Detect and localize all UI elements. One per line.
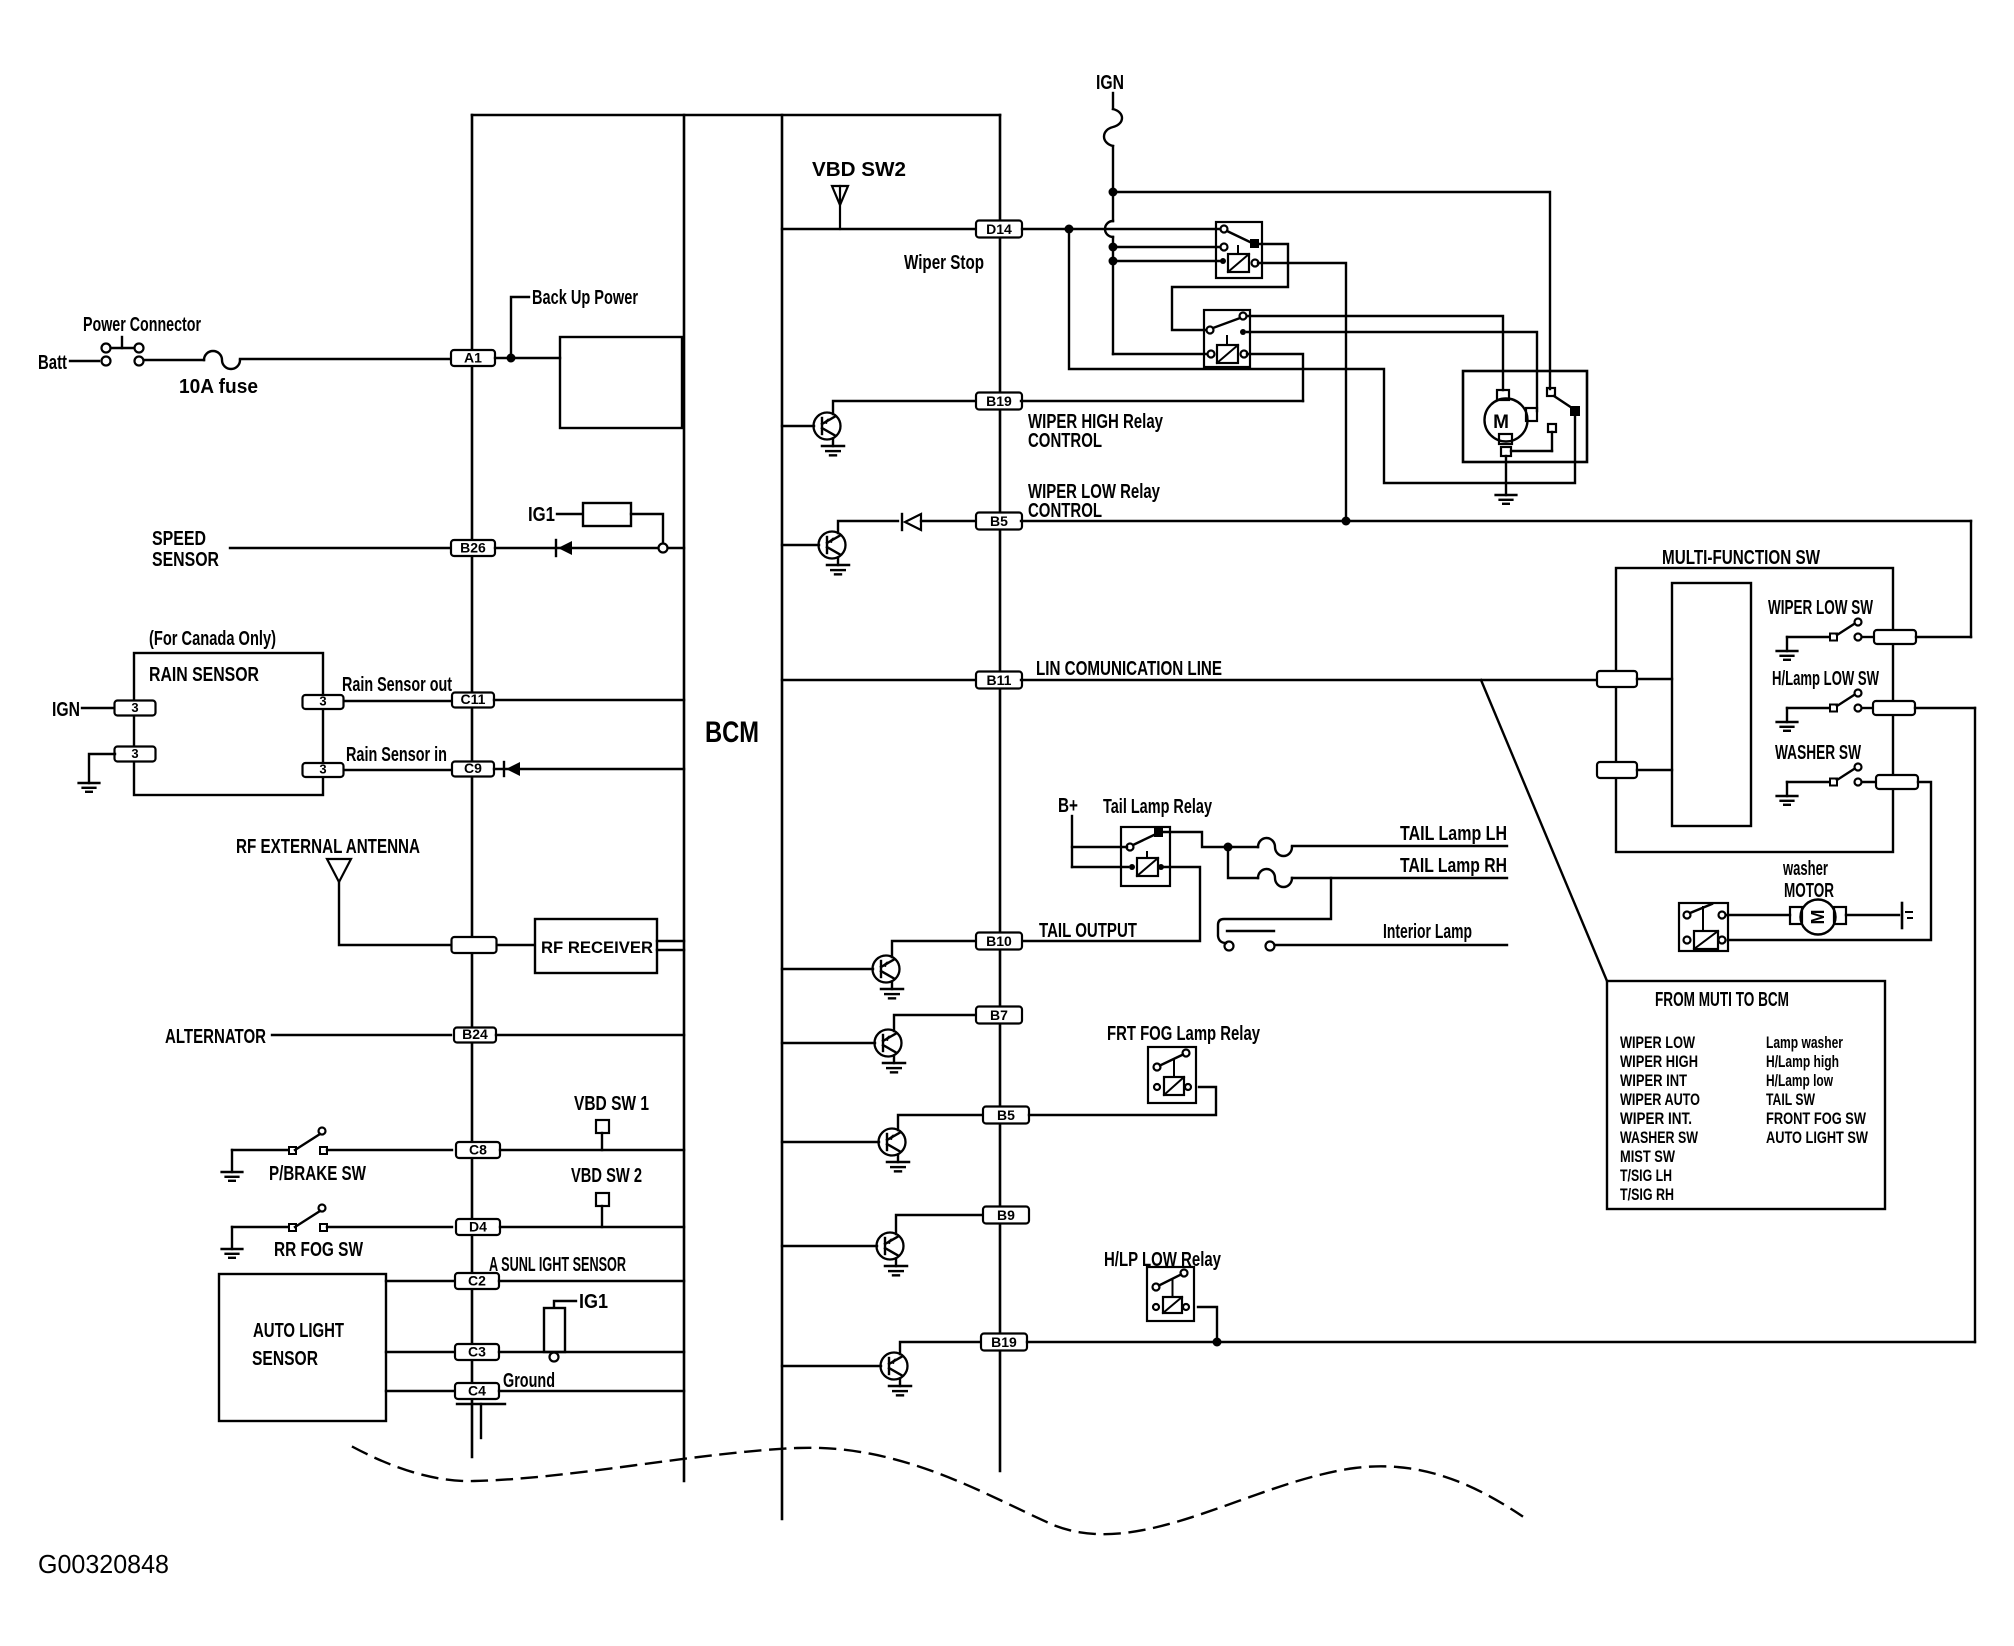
BCM top edge [472, 114, 1000, 117]
wire: BCM to D14 [782, 228, 977, 230]
svg-text:C4: C4 [468, 1383, 486, 1399]
wire: relay output [1162, 832, 1224, 847]
svg-text:IG1: IG1 [579, 1291, 608, 1313]
H/LP low relay K3 [1147, 1267, 1194, 1321]
connector (WIPER LOW SW) [1874, 630, 1916, 644]
wire: IGN lead [1112, 93, 1114, 109]
svg-text:CONTROL: CONTROL [1028, 430, 1102, 452]
svg-text:C9: C9 [464, 760, 482, 776]
wire: B26 to BCM rail [495, 547, 684, 549]
wire: A1 to back-up power module [495, 357, 560, 359]
node: relay1 coil junction [1342, 517, 1351, 526]
wiper motor M1 [1485, 390, 1538, 444]
connector A1 [451, 350, 495, 366]
connector C11 [452, 693, 494, 708]
svg-text:Ground: Ground [503, 1370, 555, 1392]
ground (rain sensor) [79, 782, 100, 784]
wire: power connector to fuse [144, 359, 204, 361]
connector (WASHER SW) [1876, 775, 1918, 789]
wire: transistor collector to connector [838, 521, 898, 533]
wire: washer sw to washer pump switch [1728, 782, 1931, 940]
transistor (output driver) [877, 1233, 904, 1260]
svg-text:IG1: IG1 [528, 504, 555, 526]
fuse F1 10A [204, 351, 240, 369]
ground at transistor emitter [881, 982, 903, 999]
svg-text:T/SIG RH: T/SIG RH [1620, 1185, 1674, 1204]
wire: C9 to rail [494, 768, 684, 770]
wire: BCM to B11 [782, 679, 977, 681]
RR FOG switch [232, 1205, 327, 1232]
wire: interior lamp feed [1218, 878, 1331, 943]
svg-text:C8: C8 [469, 1142, 487, 1158]
wire: B24 to rail [496, 1034, 684, 1036]
svg-text:WIPER INT.: WIPER INT. [1620, 1109, 1692, 1128]
wiper motor lower terminal [1501, 447, 1552, 456]
svg-text:WASHER SW: WASHER SW [1620, 1128, 1699, 1147]
transistor (output driver) [873, 956, 900, 983]
connector B11 [976, 672, 1022, 689]
ground at transistor emitter [883, 1056, 905, 1073]
wire: P/BRAKE SW to C8 [327, 1149, 452, 1151]
wire: fuse to connector A1 [240, 358, 451, 360]
WIPER HIGH Relay CONTROL label [1028, 411, 1164, 452]
svg-text:SPEED: SPEED [152, 528, 206, 550]
svg-text:3: 3 [131, 746, 138, 761]
svg-text:A SUNL IGHT SENSOR: A SUNL IGHT SENSOR [489, 1254, 626, 1276]
wire: D4 to rail [500, 1226, 684, 1228]
svg-text:B5: B5 [997, 1107, 1015, 1123]
diode D3 on wiper low control [902, 514, 977, 530]
tail lamp relay K1 [1121, 827, 1170, 886]
RF RECEIVER box [535, 919, 657, 973]
wire: transistor base from BCM rail [782, 1042, 875, 1044]
wire: alternator to B24 [272, 1034, 451, 1036]
multi-function inner module box [1672, 583, 1751, 826]
svg-text:TAIL SW: TAIL SW [1766, 1090, 1816, 1109]
node: D14 junction [1065, 225, 1074, 234]
AUTO LIGHT SENSOR box [219, 1274, 386, 1421]
svg-text:B5: B5 [990, 513, 1008, 529]
ground at transistor emitter [885, 1259, 907, 1276]
ground at transistor emitter [889, 1379, 911, 1396]
wire: rain sensor out to C11 [344, 700, 451, 702]
wire: transistor collector to connector [898, 1115, 984, 1130]
wire: sensor to C4 [386, 1390, 453, 1392]
svg-text:WIPER LOW SW: WIPER LOW SW [1768, 597, 1873, 619]
wire: transistor base from BCM rail [782, 968, 873, 970]
svg-text:3: 3 [319, 694, 326, 709]
svg-text:SENSOR: SENSOR [252, 1348, 318, 1370]
front fog lamp relay K2 [1148, 1047, 1196, 1103]
svg-text:RF RECEIVER: RF RECEIVER [541, 938, 653, 957]
connector break on IGN lead [1104, 109, 1122, 146]
transistor (output driver) [875, 1030, 902, 1057]
ground at transistor emitter [887, 1155, 909, 1172]
svg-text:3: 3 [319, 762, 326, 777]
diode D2 on rain sensor in line [504, 762, 520, 776]
wiper motor box [1463, 371, 1587, 462]
svg-text:VBD SW2: VBD SW2 [812, 159, 906, 181]
svg-text:Lamp washer: Lamp washer [1766, 1033, 1843, 1052]
wire: IGN to relay1 normally-open contact [1113, 246, 1220, 248]
svg-text:TAIL Lamp LH: TAIL Lamp LH [1400, 823, 1507, 845]
RF connector (unlabeled) [452, 937, 497, 953]
wire: wiper stop run to motor switch [1069, 229, 1575, 483]
svg-text:BCM: BCM [705, 716, 759, 749]
svg-text:Rain Sensor in: Rain Sensor in [346, 744, 447, 766]
wire: relay2 contact to wiper motor low brush [1247, 332, 1537, 411]
wire: antenna to RF connector [339, 882, 452, 945]
node: IGN to motor switch [1109, 188, 1118, 197]
svg-text:CONTROL: CONTROL [1028, 500, 1102, 522]
wire: C4 to rail [499, 1390, 684, 1392]
connector D14 [976, 221, 1022, 238]
resistor R1 (IG1 pull-up) [583, 503, 631, 526]
svg-text:C11: C11 [461, 691, 486, 707]
svg-text:IGN: IGN [52, 699, 80, 721]
svg-text:FROM MUTI TO BCM: FROM MUTI TO BCM [1655, 989, 1789, 1011]
wire: IGN vertical feed [1105, 146, 1113, 354]
wire: relay2 coil to B19 line [1247, 354, 1303, 401]
wiper relay 1 (WIPER HIGH) [1216, 222, 1262, 278]
ground at transistor emitter [822, 439, 844, 456]
svg-text:WIPER HIGH: WIPER HIGH [1620, 1052, 1698, 1071]
svg-text:LIN COMUNICATION LINE: LIN COMUNICATION LINE [1036, 658, 1222, 680]
connector B9 [983, 1207, 1029, 1224]
wire: control line to WIPER LOW SW [1970, 521, 1972, 637]
wire + fuse: TAIL Lamp RH [1228, 847, 1507, 887]
wire: motor terminal to ground [1505, 456, 1507, 495]
svg-text:(For Canada Only): (For Canada Only) [149, 628, 276, 650]
ground at transistor emitter [827, 558, 849, 575]
svg-text:B11: B11 [987, 672, 1012, 688]
wire: transistor base from BCM rail [782, 1245, 877, 1247]
P/BRAKE switch [232, 1128, 327, 1155]
ground (H/Lamp LOW SW) [1777, 708, 1798, 731]
svg-text:SENSOR: SENSOR [152, 549, 219, 571]
svg-text:washer: washer [1782, 858, 1828, 880]
ground (RR FOG SW) [222, 1227, 243, 1258]
switch WASHER SW [1787, 764, 1876, 786]
svg-text:B10: B10 [986, 933, 1012, 949]
svg-text:AUTO LIGHT: AUTO LIGHT [253, 1320, 344, 1342]
wire: transistor collector to connector [894, 1015, 977, 1031]
wire: B19 line up to H/Lamp LOW SW [1974, 708, 1976, 1342]
wire: RR FOG SW to D4 [327, 1226, 452, 1228]
svg-text:3: 3 [131, 700, 138, 715]
terminal circle on B26 line [659, 544, 668, 553]
connector (LIN, multi-function) [1597, 671, 1637, 687]
wiper relay 2 (WIPER LOW) [1204, 310, 1250, 367]
connector B5 (front fog) [983, 1107, 1029, 1124]
svg-text:VBD SW 1: VBD SW 1 [574, 1093, 649, 1115]
wire: D14 to wiper relay 1 [1022, 228, 1220, 230]
wire: sensor to C3 [386, 1351, 453, 1353]
svg-text:Interior Lamp: Interior Lamp [1383, 921, 1472, 943]
svg-text:10A fuse: 10A fuse [179, 376, 258, 398]
connector B24 [454, 1028, 496, 1043]
rain sensor pin 3 (supply) [115, 701, 156, 716]
svg-text:B9: B9 [997, 1207, 1015, 1223]
connector B7 [976, 1007, 1022, 1024]
svg-text:FRT FOG Lamp Relay: FRT FOG Lamp Relay [1107, 1023, 1261, 1045]
wire: resistor to B26 line [631, 514, 663, 543]
svg-text:WIPER LOW: WIPER LOW [1620, 1033, 1696, 1052]
wire: h/lamp low sw to B19 line [1915, 707, 1975, 709]
connector D4 [456, 1219, 500, 1235]
connector (H/Lamp LOW SW) [1873, 701, 1915, 715]
BCM bottom cut (wavy dashed line) [353, 1447, 1522, 1534]
svg-text:D4: D4 [469, 1219, 487, 1235]
ground (WASHER SW) [1777, 782, 1798, 805]
wire: IGN to relay1 coil + [1113, 260, 1220, 262]
svg-text:B7: B7 [990, 1007, 1008, 1023]
svg-text:RAIN SENSOR: RAIN SENSOR [149, 664, 259, 686]
wire: connector to module [1637, 678, 1672, 680]
wire: transistor collector to connector [833, 401, 977, 414]
svg-text:Power Connector: Power Connector [83, 314, 201, 336]
washer MOTOR label [1782, 858, 1834, 902]
svg-text:Tail Lamp Relay: Tail Lamp Relay [1103, 796, 1213, 818]
svg-text:B19: B19 [986, 393, 1012, 409]
BCM left column rail (right) [683, 115, 686, 1481]
wire: transistor base from BCM rail [782, 1141, 879, 1143]
wire: Batt lead [70, 360, 99, 362]
wire: relay2 output to wiper motor + [1247, 316, 1503, 390]
wire: IGN to wiper motor park switch [1113, 192, 1550, 389]
svg-text:D14: D14 [986, 221, 1012, 237]
wire: pump switch to washer motor [1726, 914, 1790, 916]
wiper park switch [1547, 388, 1579, 451]
svg-text:TAIL Lamp RH: TAIL Lamp RH [1400, 855, 1507, 877]
diode D1 on speed sensor line [556, 540, 572, 556]
svg-text:C2: C2 [468, 1273, 486, 1289]
wire: B5 wiper-low control line [1021, 520, 1971, 522]
wire: transistor base from BCM rail [782, 425, 814, 427]
svg-text:Wiper Stop: Wiper Stop [904, 252, 984, 274]
wire: interior lamp line [1275, 944, 1507, 946]
svg-text:WIPER INT: WIPER INT [1620, 1071, 1687, 1090]
svg-text:H/Lamp high: H/Lamp high [1766, 1052, 1839, 1071]
svg-text:WASHER SW: WASHER SW [1775, 742, 1861, 764]
svg-text:P/BRAKE SW: P/BRAKE SW [269, 1163, 366, 1185]
svg-text:WIPER AUTO: WIPER AUTO [1620, 1090, 1700, 1109]
wire: C8 to rail [500, 1149, 684, 1151]
svg-text:B+: B+ [1058, 795, 1078, 817]
svg-text:A1: A1 [464, 350, 482, 366]
BCM right column rail (left) [781, 115, 784, 1519]
wire: washer motor to ground [1846, 914, 1899, 916]
ground (P/BRAKE SW) [222, 1150, 243, 1181]
washer motor M2 [1790, 900, 1846, 935]
wire: diagonal to FROM MUTI table [1481, 680, 1607, 981]
washer pump relay/switch box [1679, 903, 1728, 951]
svg-text:ALTERNATOR: ALTERNATOR [165, 1026, 266, 1048]
node: tail feed junction [1224, 843, 1233, 852]
wire: connector to module (2) [1637, 769, 1672, 771]
FROM MUTI TO BCM box [1607, 981, 1885, 1209]
wire: transistor collector to connector [900, 1342, 981, 1354]
WIPER LOW Relay CONTROL label [1028, 481, 1161, 522]
wire: transistor base from BCM rail [782, 544, 819, 546]
connector B10 [976, 933, 1022, 950]
antenna symbol [327, 859, 351, 882]
wire: rain sensor in to C9 [344, 769, 451, 771]
ground (wiper motor) [1496, 494, 1517, 496]
ground stub below C4 [457, 1404, 505, 1438]
transistor (output driver) [819, 532, 846, 559]
svg-text:AUTO LIGHT SW: AUTO LIGHT SW [1766, 1128, 1869, 1147]
node: back-up power junction [507, 354, 516, 363]
VBD SW 2 symbol [596, 1193, 609, 1227]
svg-text:Back Up Power: Back Up Power [532, 287, 638, 309]
BCM right column rail (right) [999, 115, 1002, 1471]
power connector P1 (4 terminals) [102, 337, 144, 366]
svg-text:T/SIG LH: T/SIG LH [1620, 1166, 1672, 1185]
wire: B19 line to multi-function switch [1027, 1341, 1975, 1343]
svg-text:RR FOG SW: RR FOG SW [274, 1239, 363, 1261]
svg-text:C3: C3 [468, 1344, 486, 1360]
connector (multi-function spare) [1597, 762, 1637, 778]
ground (WIPER LOW SW) [1777, 637, 1798, 660]
wire: back up power tap [511, 297, 529, 358]
connector C2 [455, 1273, 499, 1289]
transistor (output driver) [881, 1353, 908, 1380]
rain sensor pin 3 (out) [303, 695, 344, 709]
wire: relay1 coil to wiper-low control line [1258, 263, 1346, 516]
connector C8 [456, 1142, 500, 1158]
wire: transistor collector to connector [892, 941, 977, 957]
svg-text:B19: B19 [991, 1334, 1017, 1350]
wire: C2 to rail [499, 1280, 684, 1282]
wire: transistor base from BCM rail [782, 1365, 881, 1367]
wire: tail relay coil to B10 (TAIL OUTPUT) [1023, 867, 1200, 941]
wire: B19 to relay2 coil [1021, 400, 1303, 402]
svg-text:Rain Sensor out: Rain Sensor out [342, 674, 452, 696]
SPEED SENSOR label [152, 528, 219, 571]
wire: C11 to rail [494, 699, 684, 701]
RAIN SENSOR box [134, 653, 323, 795]
connector C3 [455, 1344, 499, 1360]
connector B19 [976, 393, 1022, 410]
wire: IGN to relay2 coil + [1113, 353, 1207, 355]
ground (washer motor, bar style) [1902, 903, 1912, 928]
transistor (output driver) [879, 1129, 906, 1156]
svg-text:MOTOR: MOTOR [1784, 880, 1834, 902]
wire: IGN to rain sensor pin [82, 707, 115, 709]
wire: rain sensor ground pin [89, 754, 115, 783]
MULTI-FUNCTION SW box [1616, 568, 1893, 852]
svg-text:G00320848: G00320848 [38, 1549, 169, 1579]
node: H/LP relay coil junction [1213, 1338, 1222, 1347]
terminal circle on C3 line [550, 1353, 559, 1362]
node: IGN to relay1 contact [1109, 243, 1118, 252]
transistor (output driver) [814, 413, 841, 440]
wire: RF receiver to rail (pair) [657, 941, 684, 950]
node: IGN to relay1 coil [1109, 257, 1118, 266]
interior lamp switch [1225, 931, 1275, 951]
VBD SW 1 symbol [596, 1120, 609, 1150]
svg-text:TAIL OUTPUT: TAIL OUTPUT [1039, 920, 1137, 942]
svg-text:VBD SW 2: VBD SW 2 [571, 1165, 642, 1187]
connector B19 (headlamp) [981, 1334, 1027, 1351]
svg-text:Batt: Batt [38, 352, 67, 374]
AUTO LIGHT SENSOR label [252, 1320, 344, 1370]
wire: H/LP relay coil to junction [1198, 1307, 1217, 1342]
wire: speed sensor to B26 [230, 547, 451, 549]
switch H/Lamp LOW SW [1787, 690, 1873, 712]
svg-text:MULTI-FUNCTION SW: MULTI-FUNCTION SW [1662, 547, 1820, 569]
connector B26 [451, 540, 495, 556]
svg-text:M: M [1493, 412, 1509, 433]
svg-text:MIST SW: MIST SW [1620, 1147, 1676, 1166]
wire: relay1 output to relay2 pivot [1172, 244, 1288, 330]
wire: IG1 to resistor [557, 513, 583, 515]
svg-text:FRONT FOG SW: FRONT FOG SW [1766, 1109, 1867, 1128]
svg-text:B24: B24 [462, 1026, 488, 1042]
wire: C3 to rail [499, 1351, 684, 1353]
connector C9 [452, 762, 494, 777]
wire: transistor collector to connector [896, 1215, 984, 1234]
connector B5 [976, 513, 1022, 530]
wire: B+ feed to tail lamp relay [1072, 816, 1128, 867]
switch WIPER LOW SW [1787, 619, 1874, 641]
BCM left column rail (left) [471, 115, 474, 1457]
rain sensor pin 3 (ground) [115, 747, 156, 762]
svg-text:B26: B26 [460, 540, 486, 556]
VBD SW2 probe symbol [832, 186, 848, 229]
wire: B5 to fog relay coil [1029, 1087, 1216, 1115]
wire + fuse: TAIL Lamp LH [1228, 838, 1507, 856]
wire: RF connector to receiver [497, 944, 535, 946]
connector C4 [455, 1383, 499, 1399]
svg-text:H/Lamp LOW SW: H/Lamp LOW SW [1772, 668, 1879, 690]
wire: wiper low sw to control line [1916, 636, 1971, 638]
wire: sensor to C2 [386, 1280, 453, 1282]
back-up power module box [560, 337, 682, 428]
rain sensor pin 3 (in) [303, 763, 344, 777]
svg-text:M: M [1808, 910, 1828, 925]
svg-text:RF EXTERNAL ANTENNA: RF EXTERNAL ANTENNA [236, 836, 420, 858]
svg-text:IGN: IGN [1096, 72, 1124, 94]
wire: LIN line to multi-function switch [1021, 679, 1597, 681]
svg-text:H/Lamp low: H/Lamp low [1766, 1071, 1834, 1090]
resistor R2 (IG1) [544, 1301, 576, 1352]
